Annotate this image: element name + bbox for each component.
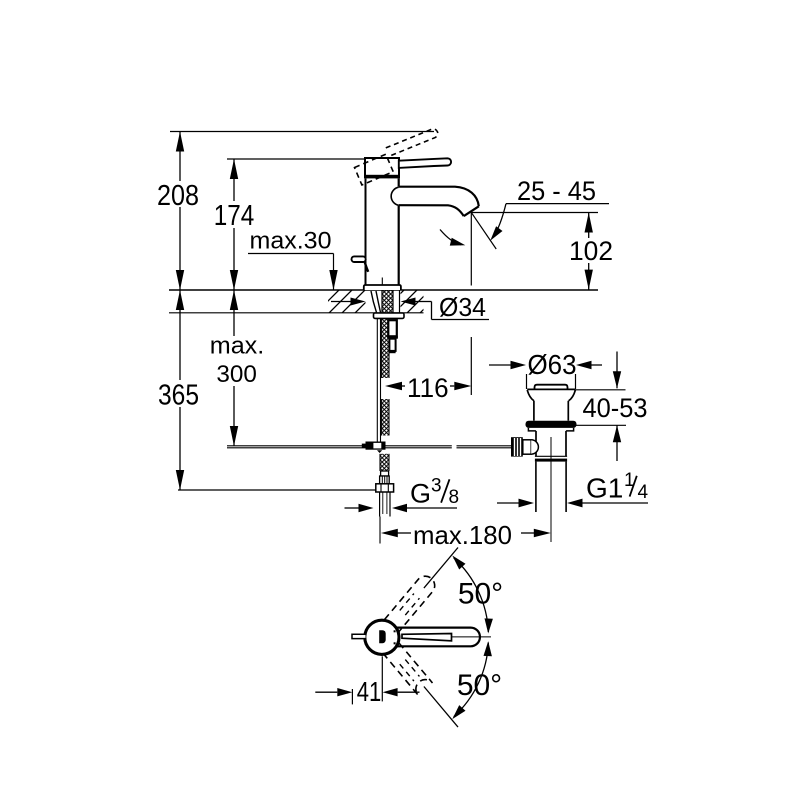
counter bottom line (169, 312, 424, 314)
rod guide lower (389, 339, 395, 351)
body centerline tick (381, 278, 383, 286)
svg-text:4: 4 (638, 482, 649, 503)
dim 25-45 underline (506, 203, 609, 205)
svg-text:G1: G1 (586, 473, 623, 504)
hose braid end (380, 454, 389, 471)
drain side knob (511, 437, 523, 456)
popup rod horizontal (227, 445, 452, 447)
arc 50 upper (454, 558, 489, 632)
lever solid (399, 158, 451, 168)
topview spout stub (352, 634, 366, 638)
dim G1-4 arrows (497, 502, 519, 504)
hose ribbed collar (380, 476, 390, 484)
shank braid (382, 291, 393, 314)
aerator direction line (472, 213, 496, 249)
hose ferrule (381, 471, 389, 476)
hose braid lower (382, 399, 389, 436)
svg-text:40-53: 40-53 (583, 393, 648, 423)
dim O63 arrows (489, 364, 511, 366)
dim 40-53 bottom (616, 425, 618, 461)
drain neck (533, 401, 535, 421)
svg-text:300: 300 (216, 361, 257, 388)
drain side connector (523, 440, 531, 454)
topview centerline (452, 636, 492, 638)
G3-8 tube (379, 492, 381, 517)
max180 ext line (379, 517, 381, 544)
popup rod knob (352, 256, 366, 262)
svg-text:116: 116 (407, 373, 449, 403)
svg-text:25 - 45: 25 - 45 (517, 176, 596, 206)
popup rod below deck (376, 318, 378, 441)
dim 102 vertical line (588, 213, 590, 239)
topview handle capsule (396, 628, 480, 647)
topview cartridge plug (379, 630, 386, 643)
base flange (364, 285, 401, 290)
svg-text:max.30: max.30 (250, 228, 332, 255)
topview dashed handle up (384, 572, 438, 632)
svg-text:Ø63: Ø63 (528, 349, 577, 380)
drain coupling (535, 455, 567, 457)
swivel arc arrow (440, 230, 461, 245)
dim O63 ext lines (526, 374, 528, 389)
dim max180 arrows (381, 529, 398, 537)
svg-text:3: 3 (431, 476, 442, 497)
dim 116 arrows (385, 382, 402, 390)
counter hatch right (378, 289, 444, 316)
svg-text:50°: 50° (457, 669, 502, 702)
hose braid upper (382, 318, 389, 378)
deck line (169, 289, 598, 291)
drain cap (535, 385, 568, 390)
ext line 174 top (227, 158, 365, 160)
dim max30 leader (248, 253, 334, 255)
G3-8 nut (376, 484, 394, 492)
dim O34 arrows (331, 301, 351, 303)
dim 174 vertical line (233, 159, 235, 201)
ext line 365 bottom (178, 489, 376, 491)
topview circle (365, 620, 399, 654)
drain body (536, 428, 566, 456)
dim 208 vertical line (179, 132, 181, 182)
drain shoulder left (528, 428, 536, 431)
svg-text:G: G (410, 479, 431, 509)
drain tailpipe (535, 462, 537, 512)
counter hatch left (300, 289, 392, 316)
drain flange (527, 388, 575, 390)
topview dashed handle down (384, 643, 432, 695)
arc 50 lower (454, 643, 489, 717)
svg-text:max.180: max.180 (413, 520, 512, 550)
svg-text:41: 41 (357, 676, 382, 707)
clamp pointer (377, 450, 382, 453)
ext line 102 top (472, 212, 599, 214)
faucet cartridge block (365, 158, 399, 177)
svg-text:max.: max. (210, 333, 265, 360)
dim 25-45 leader arc (494, 204, 507, 237)
dim 365 vertical line (179, 290, 181, 380)
topview diag line up (424, 548, 458, 589)
svg-text:365: 365 (158, 380, 199, 412)
rod guide band (387, 336, 398, 338)
topview dots (394, 630, 396, 632)
lever dashed block (355, 154, 394, 185)
drain shoulder right (566, 428, 574, 431)
rod guide upper (388, 320, 397, 336)
dim 41 arrows (315, 691, 337, 693)
topview lever blade (402, 634, 452, 641)
rod clamp (366, 442, 386, 450)
spout (399, 187, 479, 216)
ext line 40-53 top (574, 389, 626, 391)
svg-text:174: 174 (214, 200, 255, 232)
svg-text:208: 208 (157, 180, 199, 212)
topview diag line down (424, 687, 458, 728)
spout tip centerline (470, 212, 472, 286)
drain centerline (550, 437, 552, 542)
dim max300 vertical line (233, 290, 235, 336)
mounting nut (374, 313, 405, 318)
rod guide foot (389, 351, 395, 353)
svg-text:Ø34: Ø34 (439, 292, 486, 322)
shank rod channel (399, 291, 401, 314)
faucet body (366, 158, 400, 285)
svg-text:8: 8 (449, 487, 460, 508)
lever dashed bar (386, 129, 438, 156)
drain oring band (526, 421, 577, 428)
spout joint arc (391, 187, 399, 205)
ext line 208 top (170, 131, 434, 133)
dim 40-53 top (616, 352, 618, 389)
svg-text:102: 102 (569, 236, 613, 266)
dim G3-8 arrows (345, 507, 359, 509)
dim 41 ext lines (351, 689, 353, 704)
hose curve in shank (371, 291, 377, 313)
ext line 40-53 bottom (573, 424, 626, 426)
svg-text:50°: 50° (458, 578, 503, 611)
